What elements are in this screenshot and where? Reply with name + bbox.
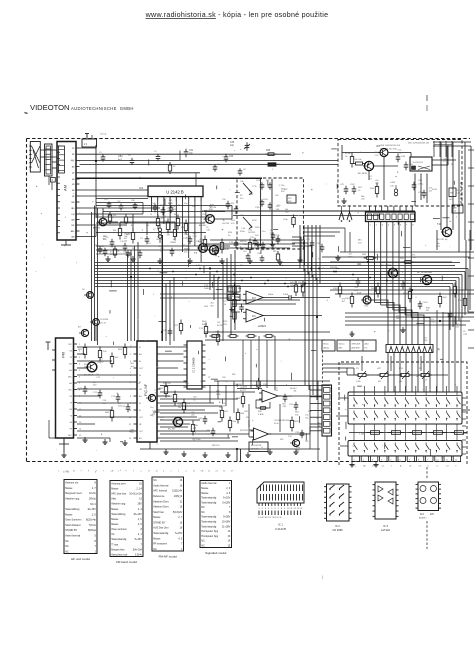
svg-text:C72: C72 [223, 301, 228, 303]
svg-text:3-J 107 01: 3-J 107 01 [413, 162, 424, 164]
svg-text:5: 5 [79, 370, 81, 372]
svg-text:P11: P11 [399, 368, 404, 370]
svg-text:8k2: 8k2 [282, 403, 286, 405]
svg-text:4: 4 [388, 225, 390, 227]
svg-text:10: 10 [436, 459, 439, 461]
nf verticals mid [209, 385, 211, 403]
wire rows mid2 [205, 331, 330, 333]
svg-text:BUS: BUS [202, 321, 207, 323]
resistor R22 [234, 296, 236, 300]
KB box [449, 188, 456, 197]
transistor T3 [199, 244, 208, 253]
svg-text:NF: NF [72, 202, 75, 204]
svg-text:L9: L9 [358, 190, 361, 192]
svg-text:21: 21 [216, 471, 219, 473]
svg-text:10+15V: 10+15V [87, 508, 96, 511]
capacitor row under IC1 a [154, 204, 156, 207]
svg-text:AUDIOTECHNISCHE GMBH: AUDIOTECHNISCHE GMBH [71, 106, 134, 111]
svg-text:5+15V: 5+15V [135, 538, 142, 541]
svg-text:680: 680 [249, 194, 253, 196]
svg-text:8: 8 [194, 199, 196, 201]
FM frontend dashed box [237, 178, 304, 249]
capacitor Cn3 [284, 394, 286, 397]
ground gn5 [247, 452, 249, 455]
svg-text:R93: R93 [295, 421, 300, 423]
svg-text:C45: C45 [456, 193, 461, 195]
svg-text:C34: C34 [229, 156, 234, 158]
resistor mid R [180, 320, 182, 324]
resistor row mid2 [210, 335, 213, 337]
svg-text:1: 1 [259, 508, 260, 510]
IC1 pinout package [257, 482, 304, 503]
resistor Rr6 [454, 283, 456, 287]
svg-text:C8: C8 [146, 225, 150, 227]
svg-text:5k6: 5k6 [276, 209, 280, 211]
svg-text:100k: 100k [216, 394, 221, 396]
svg-text:R52: R52 [248, 229, 253, 231]
svg-text:47k: 47k [167, 234, 171, 236]
svg-text:IN: IN [139, 382, 142, 384]
more grounds band [279, 259, 281, 262]
svg-text:R109: R109 [458, 300, 464, 302]
wire right h top [433, 141, 471, 143]
svg-text:3P: 3P [240, 195, 243, 197]
top right dashed box [338, 140, 462, 207]
svg-text:AFC: AFC [71, 159, 75, 162]
fm box bottom parts [254, 238, 256, 241]
svg-text:10: 10 [287, 508, 289, 510]
FM block right pins [74, 343, 78, 345]
svg-text:2: 2 [376, 225, 378, 227]
svg-text:UF5: UF5 [376, 146, 381, 148]
svg-text:14: 14 [300, 508, 302, 510]
svg-text:1: 1 [181, 548, 183, 551]
svg-text:4k7: 4k7 [115, 357, 119, 359]
svg-text:15k: 15k [124, 241, 128, 243]
svg-text:C35: C35 [104, 199, 107, 201]
svg-text:C21: C21 [196, 241, 199, 243]
svg-text:12: 12 [455, 459, 458, 461]
svg-text:2: 2 [130, 354, 132, 356]
svg-text:15k: 15k [270, 230, 274, 232]
svg-text:10n: 10n [84, 391, 88, 393]
svg-text:C33: C33 [375, 155, 380, 157]
svg-text:10+5(,)+2kr: 10+5(,)+2kr [129, 493, 142, 496]
svg-text:R9: R9 [124, 248, 126, 250]
resistor R15 [249, 239, 251, 243]
ground gr1 [351, 331, 353, 334]
wire am low1 [80, 207, 161, 209]
svg-text:10k: 10k [103, 351, 107, 353]
resistor Rr1 [339, 283, 341, 287]
svg-text:100k: 100k [204, 288, 210, 290]
svg-text:A: A [400, 465, 402, 468]
IC1 pin wires down [151, 201, 153, 212]
varactor D1 [243, 183, 252, 193]
svg-text:ZF: ZF [72, 148, 75, 150]
svg-text:15k: 15k [154, 392, 158, 394]
svg-text:Tastenstandig: Tastenstandig [201, 516, 217, 519]
svg-text:1k: 1k [223, 220, 226, 222]
resistor Rn4 [192, 421, 194, 425]
svg-text:AUS Dss Lkm: AUS Dss Lkm [153, 527, 168, 530]
connector J2 top stubs [369, 206, 371, 212]
wire array down [387, 353, 389, 393]
svg-text:AFC: AFC [71, 230, 75, 233]
svg-text:C61: C61 [103, 400, 108, 402]
IC3 pinout package [375, 482, 396, 519]
svg-text:33p: 33p [436, 243, 440, 245]
svg-text:C86: C86 [206, 430, 211, 432]
svg-text:C20: C20 [257, 253, 260, 255]
svg-text:7: 7 [133, 471, 135, 473]
svg-text:C83: C83 [185, 383, 190, 385]
svg-text:8: 8 [94, 482, 96, 485]
band fill under fmbox [247, 253, 249, 256]
wire fm fv extra [77, 388, 134, 390]
svg-text:C95: C95 [305, 441, 308, 443]
svg-text:1k: 1k [423, 381, 426, 383]
svg-text:NC: NC [65, 550, 69, 553]
svg-text:2, 6: 2, 6 [138, 518, 143, 521]
svg-text:C33: C33 [463, 334, 468, 336]
svg-text:R52: R52 [358, 187, 363, 189]
svg-text:2k: 2k [345, 156, 348, 158]
svg-text:7: 7 [229, 506, 231, 509]
svg-text:a: a [141, 471, 143, 473]
svg-text:C2: C2 [382, 466, 384, 468]
ground gn6 [269, 449, 271, 452]
ground gf3 [124, 440, 126, 443]
ground g5 [221, 258, 223, 261]
resistor Rr3 [377, 283, 379, 287]
svg-text:6: 6 [400, 459, 402, 461]
wire am pin3 [80, 159, 339, 161]
cap row y205 [108, 202, 110, 204]
svg-text:13b: 13b [275, 195, 279, 197]
svg-text:7: 7 [391, 466, 392, 468]
wire upper mid h5 [96, 222, 205, 224]
svg-text:IN: IN [139, 410, 142, 412]
svg-text:4k7: 4k7 [293, 388, 297, 390]
switch bank 2 frame [348, 441, 462, 457]
svg-text:9: 9 [126, 471, 128, 473]
ground gn7 [295, 449, 297, 452]
svg-text:C91: C91 [289, 404, 294, 406]
svg-text:15k: 15k [305, 417, 309, 419]
svg-text:8(9%)a: 8(9%)a [88, 529, 97, 532]
capacitor C17 [262, 242, 264, 245]
switch bank 1 frame [348, 392, 462, 424]
svg-text:14: 14 [129, 438, 132, 440]
svg-text:NF: NF [69, 396, 72, 398]
svg-text:R35: R35 [266, 150, 271, 152]
svg-text:C36: C36 [230, 142, 235, 144]
svg-text:R12: R12 [412, 257, 417, 259]
ground matrix b [375, 462, 377, 465]
svg-text:IC 3: IC 3 [383, 524, 388, 528]
antenna connector strip [45, 144, 53, 176]
capacitor C7 [146, 236, 148, 239]
svg-text:R48: R48 [426, 307, 431, 309]
svg-text:10+5v: 10+5v [89, 492, 96, 495]
svg-text:BC 307MB 6b8: BC 307MB 6b8 [417, 272, 433, 274]
svg-text:Abst: Abst [365, 343, 369, 346]
wire am bold line [76, 177, 262, 179]
svg-text:2: 2 [157, 199, 159, 201]
svg-text:10k: 10k [285, 209, 289, 211]
svg-text:R17: R17 [183, 245, 186, 247]
wire bus drop c [299, 225, 301, 269]
resistor Rn3 [183, 399, 185, 403]
verticals bus left [161, 287, 163, 341]
resistor R13 [221, 239, 223, 243]
svg-text:UB: UB [72, 219, 75, 221]
svg-text:OSC: OSC [68, 344, 73, 346]
capacitor Cr1 [357, 278, 359, 281]
svg-text:3: 3 [265, 508, 266, 510]
svg-text:5+(28V: 5+(28V [222, 501, 230, 504]
svg-text:L9: L9 [443, 161, 446, 163]
bus extra top lines [95, 262, 460, 264]
svg-text:1: 1 [94, 550, 96, 553]
svg-text:C18: C18 [170, 242, 173, 244]
svg-text:AFC loss loss: AFC loss loss [111, 493, 127, 496]
svg-text:AG: AG [139, 437, 142, 440]
svg-text:1M: 1M [167, 211, 170, 213]
wire h y198 [96, 198, 148, 200]
pot P4 [418, 374, 421, 376]
svg-text:47k: 47k [399, 381, 403, 383]
svg-text:MY2/3P1: MY2/3P1 [240, 430, 249, 432]
svg-text:3: 3 [372, 459, 374, 461]
antenna FM [47, 342, 49, 350]
svg-text:7: 7 [94, 545, 96, 548]
wire fv right links [161, 346, 188, 348]
svg-text:6k8: 6k8 [443, 297, 447, 299]
svg-text:R81: R81 [168, 396, 173, 398]
junction dots bus [199, 268, 201, 270]
table HF und modul [64, 480, 97, 554]
svg-text:4k7: 4k7 [368, 179, 372, 181]
svg-text:C31: C31 [189, 150, 194, 152]
ground matrix [351, 462, 353, 465]
svg-text:FV - NF: FV - NF [144, 384, 148, 396]
svg-text:R21: R21 [113, 215, 116, 217]
svg-text:8: 8 [428, 466, 429, 468]
wire right mids [330, 289, 474, 291]
svg-text:R61: R61 [238, 294, 243, 296]
svg-text:1M: 1M [249, 191, 252, 193]
svg-text:C37: C37 [117, 201, 120, 203]
svg-text:11: 11 [223, 471, 226, 473]
svg-text:R96: R96 [308, 411, 311, 413]
svg-text:22k: 22k [224, 324, 228, 326]
svg-text:AG: AG [139, 353, 142, 356]
svg-text:R48: R48 [169, 203, 174, 205]
svg-text:IC 2: IC 2 [335, 524, 340, 528]
svg-text:220: 220 [93, 385, 97, 387]
ground trbox [343, 198, 345, 201]
svg-text:7: 7 [188, 199, 190, 201]
svg-text:T7: T7 [78, 327, 81, 329]
svg-text:Tastendillung: Tastendillung [65, 508, 80, 511]
svg-text:10k: 10k [233, 421, 237, 423]
wire matrix top entries [353, 386, 355, 392]
svg-text:1M: 1M [426, 310, 429, 312]
resistor Rr9 [402, 261, 405, 263]
svg-text:6: 6 [275, 508, 276, 510]
svg-text:NC 4: NC 4 [90, 503, 96, 506]
capacitor Ct1 [397, 154, 399, 157]
svg-text:C45: C45 [193, 236, 198, 238]
svg-text:9+28V: 9+28V [223, 516, 230, 519]
svg-text:8: 8 [130, 396, 132, 398]
connector J2 block [366, 212, 416, 222]
wires above SO41P [433, 141, 435, 157]
wire mid h4 [132, 214, 134, 231]
transistor T7 [81, 329, 88, 336]
wire band y246 [96, 245, 230, 247]
resistor R4 [132, 229, 134, 233]
wire am pin to IC1 a [80, 189, 149, 191]
svg-text:41b: 41b [277, 205, 281, 207]
svg-text:9: 9 [284, 508, 285, 510]
svg-text:R3: R3 [113, 230, 117, 232]
svg-text:8: 8 [281, 508, 282, 510]
svg-text:OUT: OUT [139, 417, 144, 419]
extra wire segs [142, 203, 144, 215]
IC CD4066 dip block [187, 341, 202, 389]
svg-text:2: 2 [262, 508, 263, 510]
svg-text:13u: 13u [240, 198, 243, 200]
svg-text:4k7: 4k7 [342, 301, 346, 303]
svg-text:16: 16 [180, 527, 183, 530]
AM block inner ticks [57, 145, 60, 147]
svg-text:(: ( [322, 575, 324, 579]
dip left pins [184, 344, 188, 346]
svg-text:Mono: Mono [324, 344, 330, 346]
svg-text:R48: R48 [296, 450, 301, 452]
svg-text:21B: 21B [204, 306, 208, 308]
svg-text:ZF: ZF [70, 357, 73, 359]
wire pots left rails [322, 363, 360, 365]
svg-text:Fre: Fre [365, 348, 369, 350]
svg-text:1k: 1k [228, 235, 231, 237]
svg-text:FM-NF modul: FM-NF modul [159, 555, 178, 559]
svg-text:BC238: BC238 [223, 223, 230, 225]
boxed label MME [228, 295, 240, 301]
svg-text:6: 6 [79, 377, 81, 379]
wire bus drop b [304, 269, 306, 386]
svg-text:1M: 1M [93, 382, 96, 384]
svg-text:7: 7 [103, 471, 105, 473]
svg-text:10+28V: 10+28V [222, 521, 231, 524]
components on top wires [102, 154, 104, 157]
svg-text:11: 11 [156, 471, 159, 473]
svg-text:4: 4 [79, 364, 81, 366]
svg-text:Masse: Masse [201, 487, 209, 490]
svg-text:5: 5 [394, 225, 396, 227]
resistor array RN1 [386, 345, 433, 353]
svg-text:2, 7: 2, 7 [92, 487, 97, 490]
svg-text:www.radiohistoria.sk - kópia -: www.radiohistoria.sk - kópia - len pre o… [145, 11, 329, 19]
svg-text:NC: NC [65, 540, 69, 543]
svg-text:12: 12 [294, 508, 296, 510]
svg-text:NF: NF [69, 428, 72, 430]
svg-text:10k: 10k [295, 414, 299, 416]
svg-text:15: 15 [79, 435, 82, 437]
trimmer C36 [246, 142, 248, 145]
svg-text:BC238: BC238 [248, 232, 255, 234]
main dashed border top [27, 138, 471, 140]
svg-text:C5 C6: C5 C6 [100, 134, 107, 136]
svg-text:C45: C45 [274, 390, 279, 392]
svg-text:5(4+O)4: 5(4+O)4 [133, 548, 143, 551]
wires tuner to AM [40, 149, 57, 151]
resistor Rn6 [229, 417, 231, 421]
nf vertical pairs [242, 340, 244, 385]
svg-text:x: x [171, 471, 172, 473]
tuner crossed wires [32, 146, 41, 163]
resistor R26 [217, 331, 219, 335]
IC1 U2142B block [148, 186, 203, 197]
ground g1 [107, 256, 109, 259]
svg-text:10: 10 [180, 521, 183, 524]
IC4 pinout package [418, 482, 439, 511]
wire tr box [342, 152, 380, 154]
svg-text:47k: 47k [231, 223, 235, 225]
svg-text:4k7: 4k7 [225, 411, 229, 413]
boxed label right edge [452, 205, 463, 213]
svg-text:C55: C55 [418, 180, 423, 182]
resistor Rn2 [174, 391, 176, 395]
wire am low2 [80, 213, 144, 215]
svg-text:2, 7: 2, 7 [178, 516, 183, 519]
wire bus jog right [369, 300, 389, 344]
svg-text:16: 16 [180, 484, 183, 487]
svg-text:47k: 47k [456, 190, 460, 192]
svg-text:46 HF: 46 HF [345, 153, 352, 155]
svg-text:LM324: LM324 [258, 324, 266, 328]
resistor R24 [302, 281, 304, 285]
op-amp U3b [246, 309, 263, 322]
svg-text:UB: UB [69, 350, 72, 352]
svg-text:NC: NC [153, 479, 157, 482]
svg-text:11: 11 [180, 500, 183, 503]
svg-text:47u: 47u [375, 180, 379, 182]
transistor T1 [99, 218, 107, 226]
svg-text:C72: C72 [93, 392, 98, 394]
svg-text:16: 16 [180, 479, 183, 482]
resistor R7 [174, 226, 176, 230]
svg-text:UB: UB [72, 236, 75, 238]
ground fm1 [257, 242, 259, 245]
svg-text:R89 1k5: R89 1k5 [212, 445, 220, 447]
svg-text:Streif fssn: Streif fssn [153, 511, 164, 514]
svg-text:5(0-6)2V: 5(0-6)2V [173, 511, 183, 514]
svg-text:C45: C45 [424, 340, 429, 342]
svg-text:R8: R8 [95, 245, 97, 247]
svg-text:R52: R52 [436, 246, 441, 248]
svg-text:OSC: OSC [68, 389, 73, 391]
capacitor C55 [413, 182, 415, 185]
svg-text:M: M [139, 347, 141, 349]
svg-text:Signalteil modul: Signalteil modul [205, 551, 227, 555]
svg-text:C92 BR3/BC32A: C92 BR3/BC32A [274, 419, 290, 422]
svg-text:10u: 10u [150, 407, 153, 409]
switch bank1 row B [353, 411, 355, 413]
